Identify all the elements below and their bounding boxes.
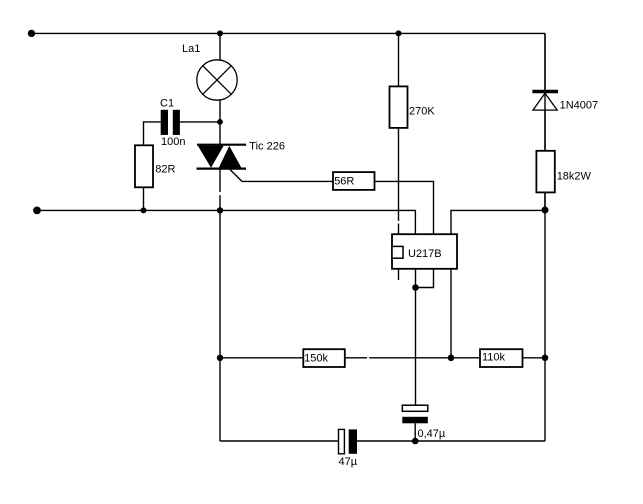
resistor 82R — [135, 145, 153, 187]
node 0,47u bottom — [412, 438, 419, 445]
wire node to 0,47u cap — [415, 288, 417, 406]
svg-text:1N4007: 1N4007 — [560, 99, 599, 111]
svg-text:100n: 100n — [161, 136, 185, 148]
capacitor 0,47u — [402, 405, 428, 423]
node 82R bottom — [141, 207, 147, 213]
wire lamp top lead — [219, 33, 221, 60]
svg-text:0,47µ: 0,47µ — [418, 428, 446, 440]
svg-text:82R: 82R — [155, 164, 175, 176]
wire mid rail seg3 — [369, 357, 480, 359]
wire triac cathode down segment — [219, 170, 221, 193]
wire 0,47u bottom lead — [414, 423, 416, 441]
resistor 110k — [480, 349, 523, 367]
capacitor C1 — [161, 110, 180, 135]
op-amp U217B — [392, 234, 457, 269]
lamp La1 — [197, 60, 237, 100]
resistor 56R — [333, 172, 375, 190]
node 270K top — [396, 30, 402, 36]
resistor 150k — [303, 349, 345, 367]
svg-text:270K: 270K — [409, 106, 435, 118]
terminal top-left — [28, 30, 35, 37]
node 18k2W bottom — [542, 207, 549, 214]
wire IC pin middle — [415, 269, 417, 288]
wire 270K top lead — [398, 33, 400, 86]
node triac left rail — [217, 207, 223, 213]
node mid rail left — [217, 355, 223, 361]
wire top rail — [32, 32, 546, 34]
wire 18k2W bottom lead — [544, 192, 546, 210]
wire mid rail seg1 — [220, 357, 303, 359]
svg-text:47µ: 47µ — [339, 456, 358, 468]
resistor 18k2W — [536, 151, 554, 193]
node C1 lamp junction — [217, 119, 223, 125]
node 110k left — [448, 355, 455, 362]
svg-text:56R: 56R — [334, 175, 354, 187]
wire IC pin stub — [398, 269, 400, 280]
wire lamp bottom lead — [219, 100, 221, 145]
wire right rail — [544, 33, 546, 441]
svg-text:18k2W: 18k2W — [557, 171, 592, 183]
capacitor 47u — [339, 429, 358, 453]
resistor 270K — [390, 86, 408, 128]
wire bottom rail right segment — [357, 440, 545, 442]
wire 270K bottom lead upper — [398, 128, 400, 221]
terminal left — [33, 207, 41, 215]
triac Tic 226 — [197, 145, 247, 169]
wire diode to 18k2W — [544, 110, 546, 151]
node lamp top — [217, 30, 223, 36]
wire right node to IC pin — [451, 210, 545, 234]
wire C1 right lead — [180, 121, 220, 123]
node IC output — [412, 284, 419, 291]
wire 82R bottom lead — [143, 187, 145, 210]
svg-text:U217B: U217B — [408, 248, 442, 260]
diode 1N4007 — [532, 92, 558, 111]
node 110k right — [542, 355, 549, 362]
wire bottom-left vertical — [219, 358, 221, 441]
wire triac gate — [230, 170, 333, 182]
wire 56R to IC — [375, 181, 434, 234]
svg-text:110k: 110k — [482, 352, 506, 364]
wire mid rail seg2 — [344, 357, 367, 359]
wire IC pin right down — [450, 269, 452, 358]
wire 270K bottom lead lower — [398, 224, 400, 235]
svg-text:C1: C1 — [160, 98, 174, 110]
wire C1 left lead — [144, 122, 161, 145]
wire bottom rail left segment — [220, 440, 339, 442]
svg-text:Tic 226: Tic 226 — [249, 141, 285, 153]
svg-text:La1: La1 — [182, 43, 200, 55]
wire mid rail seg4 — [523, 357, 546, 359]
svg-text:150k: 150k — [304, 353, 328, 365]
wire IC pin third — [416, 269, 434, 288]
wire triac line lower segment — [219, 195, 221, 358]
wire diode top lead — [544, 33, 546, 90]
wire left rail — [37, 210, 415, 234]
